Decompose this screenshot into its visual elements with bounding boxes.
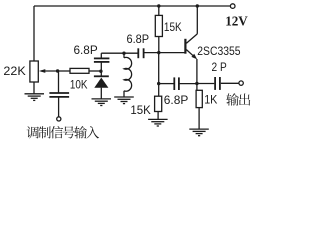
svg-text:15K: 15K bbox=[164, 20, 182, 34]
svg-text:2 P: 2 P bbox=[212, 60, 227, 74]
svg-text:6.8P: 6.8P bbox=[74, 43, 98, 57]
svg-text:1K: 1K bbox=[204, 93, 217, 107]
svg-text:12V: 12V bbox=[225, 14, 248, 29]
svg-text:6.8P: 6.8P bbox=[164, 93, 189, 107]
svg-text:15K: 15K bbox=[130, 103, 150, 117]
svg-text:10K: 10K bbox=[70, 77, 88, 91]
svg-text:22K: 22K bbox=[3, 64, 25, 78]
svg-text:2SC3355: 2SC3355 bbox=[197, 44, 240, 58]
svg-text:6.8P: 6.8P bbox=[127, 32, 150, 46]
